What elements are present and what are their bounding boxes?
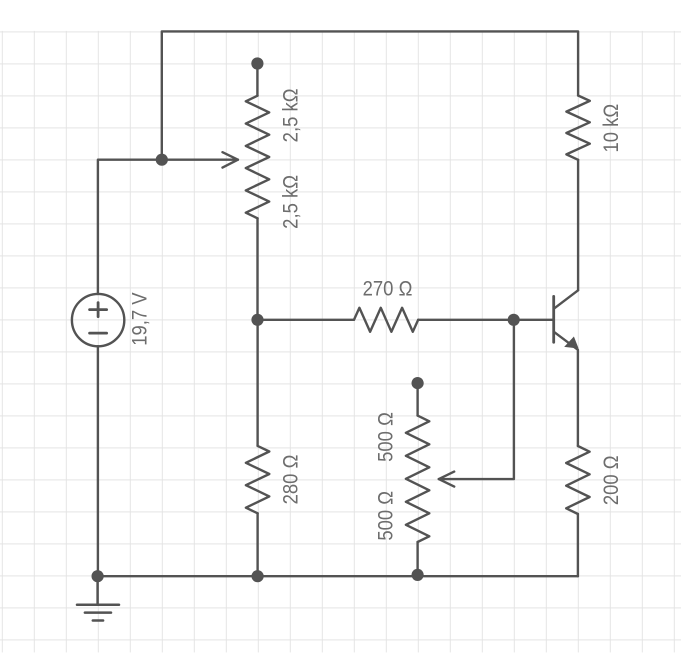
label 200 Ohm: [600, 455, 623, 505]
node ground junction: [92, 570, 104, 582]
svg-text:270 Ω: 270 Ω: [363, 277, 413, 300]
wire top rail: [162, 31, 578, 159]
wiper arrow P2: [439, 320, 514, 487]
svg-text:19,7 V: 19,7 V: [128, 292, 151, 346]
node junction E: [412, 569, 424, 581]
potentiometer P2 500 Ohm: [406, 383, 429, 574]
label 270 Ohm: [363, 277, 413, 300]
resistor R3 280 Ohm: [246, 320, 269, 576]
svg-text:2,5 kΩ: 2,5 kΩ: [279, 88, 302, 142]
label 19,7 V: [128, 292, 151, 346]
label 500 Ohm lower: [375, 491, 398, 541]
node junction D: [252, 570, 264, 582]
transistor Q1: [554, 290, 579, 446]
node junction A: [156, 154, 168, 166]
label 500 Ohm upper: [375, 412, 398, 462]
svg-text:280 Ω: 280 Ω: [279, 455, 302, 505]
terminal dot P2 top: [412, 377, 424, 389]
label 280 Ohm: [279, 455, 302, 505]
potentiometer P1 2,5 kOhm: [246, 64, 269, 320]
svg-text:500 Ω: 500 Ω: [375, 491, 398, 541]
svg-text:500 Ω: 500 Ω: [375, 412, 398, 462]
label 2,5 kOhm lower: [279, 175, 302, 229]
wire bottom rail: [98, 575, 578, 577]
wiper arrow P1: [162, 152, 238, 167]
svg-text:200 Ω: 200 Ω: [600, 455, 623, 505]
wire collector lead: [577, 160, 579, 290]
resistor R2 270 Ohm: [258, 308, 554, 332]
resistor R1 10 kOhm: [566, 96, 589, 160]
svg-text:10 kΩ: 10 kΩ: [600, 104, 623, 153]
wire source to ground: [97, 346, 99, 576]
label 10 kOhm: [600, 104, 623, 153]
terminal dot P1 top: [251, 57, 263, 69]
voltage source V1: [72, 294, 124, 346]
label 2,5 kOhm upper: [279, 88, 302, 142]
node junction C: [508, 314, 520, 326]
svg-text:2,5 kΩ: 2,5 kΩ: [279, 175, 302, 229]
wire base feed left: [98, 160, 162, 294]
resistor R4 200 Ohm: [566, 446, 589, 576]
node junction B: [251, 314, 263, 326]
ground: [77, 576, 119, 620]
